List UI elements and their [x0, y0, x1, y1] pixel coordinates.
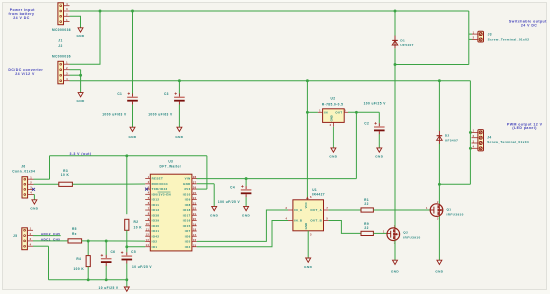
- svg-text:IO13: IO13: [152, 208, 160, 212]
- svg-text:IO16: IO16: [183, 219, 191, 223]
- wire Q1 source to gnd: [438, 216, 440, 260]
- svg-text:C5: C5: [131, 250, 136, 254]
- svg-text:22: 22: [193, 207, 197, 211]
- wire U3 GND: [197, 184, 215, 207]
- label C5 value: [132, 265, 152, 269]
- svg-text:C6: C6: [110, 250, 115, 254]
- svg-text:DFT_Walter: DFT_Walter: [160, 165, 182, 169]
- label ADC2_CH5: [41, 232, 61, 236]
- wire D2 column: [438, 81, 440, 204]
- label C4 value: [218, 200, 241, 204]
- junction rail/C5: [125, 278, 128, 281]
- svg-text:D1: D1: [400, 38, 405, 42]
- wire R4 to rail: [87, 267, 89, 280]
- svg-text:22: 22: [364, 202, 368, 206]
- svg-text:J4: J4: [487, 136, 491, 140]
- label R1 value: [364, 202, 368, 206]
- svg-text:MC000036: MC000036: [52, 55, 71, 59]
- svg-text:Conn_01x04: Conn_01x04: [12, 170, 35, 174]
- svg-text:IO17: IO17: [183, 213, 191, 217]
- connector J6: [22, 175, 34, 198]
- svg-text:Q2: Q2: [403, 230, 408, 234]
- resistor R3: [59, 182, 73, 186]
- wire U3 IO5 to U1 INA: [197, 210, 288, 241]
- svg-text:28: 28: [193, 175, 197, 179]
- svg-text:IN_A: IN_A: [294, 208, 303, 212]
- svg-text:J3: J3: [488, 32, 492, 36]
- capacitor C1: [117, 92, 137, 105]
- junction 24V/J2pin1: [99, 10, 102, 13]
- wire U2 out to C2: [348, 112, 379, 123]
- label D2 value: [445, 139, 458, 143]
- svg-text:VCC: VCC: [304, 201, 308, 208]
- ground U3: [210, 206, 218, 217]
- wire C2 to ground: [378, 134, 380, 148]
- svg-text:26: 26: [193, 186, 197, 190]
- wire rail to gnd arrow: [126, 280, 128, 287]
- gate driver U1: [286, 195, 329, 236]
- wire bottom gnd rail: [49, 279, 127, 281]
- svg-text:J5: J5: [13, 234, 17, 238]
- junction J4 pin4: [469, 147, 472, 150]
- svg-text:OUT: OUT: [335, 111, 342, 115]
- svg-text:IO15: IO15: [183, 224, 191, 228]
- svg-text:100 uF/25 V: 100 uF/25 V: [218, 200, 241, 204]
- svg-text:Q1: Q1: [447, 207, 452, 211]
- label U3 ref: [168, 159, 173, 163]
- capacitor C4: [230, 185, 251, 197]
- svg-text:IRFU3910: IRFU3910: [403, 235, 420, 239]
- connector J2: [58, 60, 70, 83]
- ground C2: [375, 148, 383, 159]
- svg-text:18: 18: [193, 228, 197, 232]
- svg-text:UF5407: UF5407: [445, 139, 458, 143]
- svg-text:D2: D2: [445, 134, 450, 138]
- junction D1 bottom: [394, 63, 397, 66]
- text PWM output annotation: [507, 122, 543, 130]
- junction rail/R4: [87, 278, 90, 281]
- label U3 value: [160, 165, 182, 169]
- ground U2: [329, 148, 337, 159]
- wire U3 IO4 to U1 INB: [197, 221, 288, 247]
- junction 24V/C1: [131, 10, 134, 13]
- wire 12V rail: [70, 80, 471, 82]
- wire C4 to ground: [245, 197, 247, 206]
- ground J1: [76, 28, 84, 38]
- svg-text:100 uF/25 V: 100 uF/25 V: [364, 102, 387, 106]
- text DC/DC converter annotation: [8, 68, 43, 76]
- wire 12V to J4 column: [469, 81, 471, 185]
- svg-text:IO39: IO39: [152, 219, 160, 223]
- wire C3 to 12V rail: [178, 81, 180, 94]
- svg-text:GND: GND: [435, 270, 443, 274]
- capacitor C5: [121, 250, 136, 263]
- label 3.3V out: [70, 152, 92, 156]
- wire J6 pin1 riser: [34, 156, 50, 179]
- wire R4 branch: [87, 241, 89, 256]
- connector J3: [469, 30, 484, 42]
- junction J4 pin1: [469, 131, 472, 134]
- wire U1 OUTA to R1: [328, 209, 361, 211]
- wire C1 to 24V rail: [132, 11, 134, 94]
- wire 3.3V rail: [50, 156, 207, 189]
- svg-text:IO2: IO2: [152, 240, 158, 244]
- wire J6 pin2 to R3: [34, 183, 59, 185]
- svg-text:VIN: VIN: [185, 177, 191, 181]
- svg-text:IO1: IO1: [152, 245, 158, 249]
- label Q2 gate pin1: [383, 230, 385, 234]
- svg-text:Screw_Terminal_01x04: Screw_Terminal_01x04: [487, 140, 529, 144]
- svg-text:GND: GND: [329, 155, 337, 159]
- ground C3: [175, 127, 183, 139]
- svg-text:GND: GND: [77, 99, 85, 103]
- svg-text:25: 25: [193, 191, 197, 195]
- svg-text:GND: GND: [391, 270, 399, 274]
- label ADC1_CH5: [41, 238, 61, 242]
- wire J5 pin3 to R5: [33, 240, 68, 242]
- svg-text:IN: IN: [324, 111, 328, 115]
- label J3 ref: [488, 32, 492, 36]
- label MC000036 (J2 value): [52, 55, 71, 59]
- svg-text:Screw_Terminal_01x02: Screw_Terminal_01x02: [488, 37, 530, 41]
- junction C6 tap: [105, 240, 108, 243]
- label Q1 value: [447, 212, 464, 216]
- svg-text:11: 11: [146, 227, 150, 231]
- svg-text:IO10: IO10: [183, 192, 191, 196]
- svg-text:IR4427: IR4427: [312, 193, 325, 197]
- svg-text:IO0/3V3-EN: IO0/3V3-EN: [152, 192, 171, 196]
- label C6 value: [99, 286, 119, 290]
- label C1 value: [102, 113, 127, 117]
- ground Q1: [435, 260, 443, 273]
- svg-text:14: 14: [146, 243, 150, 247]
- junction R4 tap: [87, 240, 90, 243]
- svg-text:UF5407: UF5407: [400, 43, 413, 47]
- svg-text:R4: R4: [76, 257, 81, 261]
- junction 12V/U2 branch: [306, 79, 309, 82]
- connector J5: [22, 227, 33, 250]
- wire C6 to rail: [105, 266, 107, 280]
- svg-text:GND: GND: [330, 115, 334, 121]
- svg-text:GND: GND: [210, 213, 218, 217]
- svg-text:IO6: IO6: [185, 234, 191, 238]
- svg-text:13: 13: [146, 238, 150, 242]
- ground U1: [304, 258, 312, 269]
- svg-text:15: 15: [193, 243, 197, 247]
- capacitor C2: [364, 121, 384, 134]
- wire D1 column: [394, 11, 396, 228]
- junction 12V/C3: [178, 79, 181, 82]
- wire C4 branch: [245, 179, 247, 187]
- svg-text:IO5: IO5: [185, 240, 191, 244]
- resistor R2: [125, 219, 129, 230]
- text power input annotation: [9, 8, 36, 20]
- junction IO1 tap: [125, 245, 128, 248]
- svg-text:U2: U2: [331, 97, 336, 101]
- no-connect U3 TXD: [145, 188, 148, 191]
- wire C1 to ground: [132, 105, 134, 128]
- svg-text:23: 23: [193, 201, 197, 205]
- svg-text:1000 uF/63 V: 1000 uF/63 V: [148, 113, 173, 117]
- wire C6 branch: [105, 241, 107, 255]
- svg-text:R5: R5: [72, 227, 77, 231]
- svg-text:10 uF/25 V: 10 uF/25 V: [99, 286, 119, 290]
- resistor R1: [361, 208, 373, 212]
- label R4 value: [73, 267, 84, 271]
- svg-text:GND: GND: [128, 135, 136, 139]
- label U2 value: [322, 103, 343, 107]
- label J4 ref: [487, 136, 491, 140]
- svg-text:3V3: 3V3: [184, 187, 190, 191]
- svg-text:IO4: IO4: [185, 245, 191, 249]
- svg-text:C1: C1: [117, 92, 122, 96]
- svg-text:17: 17: [193, 233, 197, 237]
- svg-text:OUT_A: OUT_A: [310, 208, 322, 212]
- wire J6 pin4 to ground: [33, 195, 36, 200]
- regulator U2: [318, 108, 348, 127]
- diode D2: [437, 131, 443, 144]
- wire J4 column to Q1: [439, 183, 470, 185]
- svg-text:IO18: IO18: [183, 208, 191, 212]
- ground bottom rail: [124, 287, 129, 291]
- svg-text:GND: GND: [304, 265, 312, 269]
- label D2 ref: [445, 134, 450, 138]
- svg-text:GND: GND: [175, 135, 183, 139]
- label J5 ref: [13, 234, 17, 238]
- wire J5 pin4 to rail: [33, 246, 49, 280]
- wire J3 riser: [468, 11, 470, 65]
- wire 5V rail: [197, 112, 357, 178]
- svg-text:16: 16: [193, 238, 197, 242]
- svg-text:12: 12: [146, 233, 150, 237]
- wire IO1 to U3: [127, 246, 145, 248]
- junction C4 tap: [245, 177, 248, 180]
- label Q1 ref: [447, 207, 452, 211]
- capacitor C6: [101, 250, 116, 266]
- svg-text:10 K: 10 K: [134, 226, 143, 230]
- svg-text:100 K: 100 K: [73, 267, 84, 271]
- wire U1 OUTB to R9: [328, 221, 361, 234]
- label C3 value: [148, 113, 173, 117]
- junction rail/C6: [105, 278, 108, 281]
- svg-text:IO38: IO38: [152, 213, 160, 217]
- wire J2 pin2 to ground: [70, 70, 81, 93]
- svg-text:10 uF/25 V: 10 uF/25 V: [132, 265, 152, 269]
- svg-text:J6: J6: [21, 164, 25, 168]
- svg-text:1000 uF/63 V: 1000 uF/63 V: [102, 113, 127, 117]
- svg-text:24 V DC: 24 V DC: [521, 24, 537, 28]
- wire U3 3V3: [196, 188, 198, 190]
- wire U2 gnd: [332, 127, 334, 148]
- MCU U3: [145, 174, 197, 251]
- svg-text:GND: GND: [304, 223, 308, 229]
- svg-text:IO42: IO42: [152, 234, 160, 238]
- transistor Q1: [430, 201, 443, 220]
- resistor R4: [86, 256, 90, 267]
- svg-text:C4: C4: [230, 185, 235, 189]
- svg-text:IO11: IO11: [152, 203, 160, 207]
- svg-text:10 K: 10 K: [61, 173, 70, 177]
- connector J4: [470, 129, 483, 151]
- label R2 ref: [134, 220, 139, 224]
- wire R2 to C5: [126, 230, 128, 252]
- wire R5 to U3 IO2: [82, 240, 146, 242]
- text switchable output annotation: [509, 20, 547, 28]
- wire Q2 source to gnd: [394, 241, 396, 261]
- label D1 ref: [400, 38, 405, 42]
- diode D1: [392, 36, 398, 49]
- capacitor C3: [164, 92, 185, 105]
- label R5 ref: [72, 227, 77, 231]
- svg-text:J1: J1: [58, 39, 62, 43]
- resistor R5: [68, 239, 82, 243]
- svg-text:24 V/12 V: 24 V/12 V: [15, 72, 35, 76]
- svg-text:24 V DC: 24 V DC: [13, 16, 29, 20]
- svg-text:TXD/IO43: TXD/IO43: [152, 187, 168, 191]
- svg-text:R2: R2: [134, 220, 139, 224]
- wire U2 VCC column: [306, 81, 308, 200]
- label J3 value: [488, 37, 530, 41]
- label C2 value: [364, 102, 387, 106]
- junction 3.3V/R2: [125, 154, 128, 157]
- svg-text:(LED panel): (LED panel): [512, 126, 537, 130]
- label Q2 value: [403, 235, 420, 239]
- svg-text:GND: GND: [76, 34, 84, 38]
- wire ADC2 stub: [33, 235, 61, 237]
- svg-text:22: 22: [364, 226, 368, 230]
- ground C4: [242, 206, 250, 217]
- svg-text:GND: GND: [375, 155, 383, 159]
- svg-text:IO8: IO8: [185, 203, 191, 207]
- svg-text:IO7: IO7: [185, 229, 191, 233]
- svg-text:IO12: IO12: [152, 198, 160, 202]
- svg-text:IO40: IO40: [152, 224, 160, 228]
- label MC000036 (J1 value): [52, 28, 71, 32]
- svg-text:10: 10: [146, 222, 150, 226]
- wire C5 to rail: [126, 263, 128, 279]
- svg-text:Rx: Rx: [72, 232, 77, 236]
- wire J3 pin2 net: [395, 64, 469, 66]
- svg-text:U1: U1: [312, 188, 317, 192]
- junction 24V/D1: [394, 10, 397, 13]
- ground Q2: [391, 260, 399, 273]
- label D1 value: [400, 43, 413, 47]
- label R2 value: [134, 226, 143, 230]
- label R3 value: [61, 173, 70, 177]
- wire U2 in stub: [307, 111, 318, 113]
- label U1 value: [312, 193, 325, 197]
- wire J1 pin2 to ground: [70, 16, 81, 28]
- ground J2: [77, 93, 85, 103]
- svg-text:20: 20: [193, 217, 197, 221]
- label R1 ref: [364, 198, 369, 202]
- svg-text:U3: U3: [168, 159, 173, 163]
- label R9 value: [364, 226, 368, 230]
- wire R2 column: [126, 156, 128, 214]
- label R4 ref: [76, 257, 81, 261]
- label Q1 gate pin1: [426, 206, 428, 210]
- svg-text:IN_B: IN_B: [294, 219, 302, 223]
- svg-text:GND: GND: [242, 213, 250, 217]
- junction Q1 drain: [438, 183, 441, 186]
- wire J2 pin3 to ground: [70, 74, 81, 76]
- wire R9 to Q2 gate: [373, 232, 387, 234]
- svg-text:C2: C2: [364, 121, 369, 125]
- no-connect J6 pin3: [32, 188, 35, 191]
- svg-text:RESET: RESET: [152, 177, 164, 181]
- label R3 ref: [63, 169, 68, 173]
- wire 24V drop to J2 pin1: [70, 11, 101, 64]
- svg-text:J2: J2: [58, 44, 62, 48]
- wire 24V rail: [70, 10, 469, 12]
- svg-text:27: 27: [193, 180, 197, 184]
- junction 12V/D2: [438, 79, 441, 82]
- transistor Q2: [387, 225, 400, 244]
- svg-text:R-785.0-0.5: R-785.0-0.5: [322, 103, 343, 107]
- junction J2 gnd: [79, 74, 82, 77]
- label Q2 ref: [403, 230, 408, 234]
- svg-text:IO41: IO41: [152, 229, 160, 233]
- svg-text:RXD/IO44: RXD/IO44: [152, 182, 168, 186]
- label U1 ref: [312, 188, 317, 192]
- label J1 ref: [58, 39, 62, 43]
- label J6 ref: [21, 164, 25, 168]
- svg-text:GND: GND: [183, 182, 191, 186]
- label R9 ref: [364, 222, 369, 226]
- svg-text:GND: GND: [30, 207, 38, 211]
- connector J1: [58, 2, 70, 25]
- svg-text:IO9: IO9: [185, 198, 191, 202]
- label J6 value: [12, 170, 35, 174]
- label R5 value: [72, 232, 77, 236]
- wire R1 to Q1 gate: [373, 209, 430, 211]
- junction U2 input: [306, 111, 309, 114]
- label U2 ref: [331, 97, 336, 101]
- resistor R9: [361, 231, 373, 235]
- ground C1: [128, 127, 136, 139]
- svg-text:19: 19: [193, 222, 197, 226]
- wire C3 to ground: [178, 105, 180, 128]
- label J2 ref: [58, 44, 62, 48]
- svg-text:IRFU3910: IRFU3910: [447, 212, 464, 216]
- svg-text:21: 21: [193, 212, 197, 216]
- svg-text:MC000036: MC000036: [52, 28, 71, 32]
- ground J6: [30, 200, 38, 211]
- svg-text:C3: C3: [164, 92, 169, 96]
- wire U3 VIN to 5V rail: [196, 178, 198, 180]
- junction U2 out: [355, 111, 358, 114]
- label J4 value: [487, 140, 529, 144]
- svg-text:OUT_B: OUT_B: [310, 219, 322, 223]
- wire U1 gnd: [307, 231, 309, 258]
- svg-text:24: 24: [193, 196, 197, 200]
- wire R3 to U3 RXD: [72, 183, 145, 185]
